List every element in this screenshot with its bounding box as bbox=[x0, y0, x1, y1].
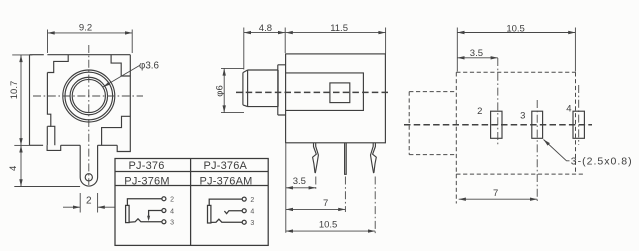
svg-text:3: 3 bbox=[250, 220, 254, 227]
bottom view body hidden outline bbox=[456, 72, 583, 174]
svg-text:10.5: 10.5 bbox=[319, 220, 338, 231]
svg-text:PJ-376M: PJ-376M bbox=[124, 175, 169, 187]
side view pin right (bent) bbox=[371, 143, 377, 173]
dimension 9.2 bbox=[48, 22, 133, 53]
side view pin centerlines bbox=[316, 177, 375, 234]
bottom view horizontal centerline bbox=[404, 124, 592, 126]
dimension 10.5 (bottom view) bbox=[457, 23, 575, 71]
dimension 11.5 bbox=[286, 23, 386, 54]
svg-text:3.5: 3.5 bbox=[470, 48, 483, 59]
bottom view pin 3 pad bbox=[532, 111, 543, 138]
side view centerline bbox=[236, 91, 390, 93]
svg-text:7: 7 bbox=[493, 188, 498, 199]
front view corner step bottom-left bbox=[47, 125, 50, 127]
terminal 2 (right cell) bbox=[242, 197, 254, 204]
side view pin left (bent) bbox=[313, 143, 319, 173]
label phi3.6 with leader bbox=[103, 61, 160, 88]
table model names bbox=[124, 160, 252, 188]
front view horizontal centerline bbox=[33, 95, 143, 97]
svg-text:φ6: φ6 bbox=[215, 85, 226, 96]
switch wire terminal 4 (right cell) bbox=[224, 211, 242, 214]
svg-text:φ3.6: φ3.6 bbox=[139, 61, 160, 72]
svg-text:PJ-376: PJ-376 bbox=[128, 160, 164, 172]
dimension 7 (side) bbox=[286, 198, 346, 211]
dimension 10.7 bbox=[9, 55, 32, 145]
terminal 3 (right cell) bbox=[242, 220, 254, 227]
terminal 2 (left cell) bbox=[162, 197, 174, 204]
dimension 4.8 bbox=[244, 23, 285, 70]
svg-text:2: 2 bbox=[170, 197, 174, 204]
svg-text:PJ-376A: PJ-376A bbox=[204, 160, 248, 172]
front view corner step top-left bbox=[47, 55, 68, 73]
label 3-(2.5x0.8) with leader bbox=[544, 140, 633, 168]
front view vertical centerline bbox=[88, 45, 90, 185]
wire to terminal 2 (left cell) bbox=[127, 199, 161, 206]
front view barrel circles bbox=[63, 70, 115, 122]
tip contact wire terminal 3 (left cell) bbox=[129, 219, 162, 222]
svg-text:4.8: 4.8 bbox=[259, 23, 272, 34]
svg-text:3: 3 bbox=[170, 220, 174, 227]
front view corner step top-right bbox=[111, 55, 130, 76]
terminal 4 (right cell) bbox=[242, 209, 254, 216]
switch wire terminal 4 (left cell) bbox=[147, 211, 162, 222]
wire to terminal 2 (right cell) bbox=[209, 199, 242, 205]
bottom view pin 2 pad bbox=[491, 111, 502, 138]
front view body outline bbox=[30, 55, 131, 186]
svg-text:3: 3 bbox=[520, 110, 525, 121]
svg-text:2: 2 bbox=[250, 197, 254, 204]
dimension 10.5 (side) bbox=[286, 220, 375, 233]
bottom view barrel hidden outline bbox=[409, 92, 456, 155]
dimension 2 (tab width) bbox=[63, 193, 115, 213]
svg-text:3.5: 3.5 bbox=[293, 176, 306, 187]
dimension 3.5 (side) bbox=[286, 176, 316, 189]
terminal 3 (left cell) bbox=[162, 220, 174, 227]
schematic PJ-376 sleeve contact bbox=[126, 205, 130, 222]
dimension 4 (tab) bbox=[8, 145, 80, 186]
schematic PJ-376A sleeve contact bbox=[208, 205, 211, 223]
svg-text:10.5: 10.5 bbox=[506, 23, 525, 34]
svg-text:2: 2 bbox=[86, 195, 92, 206]
dimension 3.5 (bottom view) bbox=[457, 48, 498, 59]
bottom view pin centerlines bbox=[498, 58, 579, 201]
front view inner left edge bbox=[47, 73, 55, 146]
svg-text:4: 4 bbox=[170, 208, 174, 215]
bottom view pin 4 pad bbox=[573, 111, 584, 138]
terminal 4 (left cell) bbox=[162, 208, 174, 215]
dimension phi6 bbox=[215, 68, 244, 112]
svg-text:2: 2 bbox=[477, 106, 482, 117]
svg-text:7: 7 bbox=[323, 198, 328, 209]
svg-text:PJ-376AM: PJ-376AM bbox=[200, 175, 253, 187]
svg-text:9.2: 9.2 bbox=[79, 22, 92, 33]
svg-text:10.7: 10.7 bbox=[9, 81, 20, 100]
tip contact wire terminal 3 (right cell) bbox=[211, 219, 242, 222]
svg-text:4: 4 bbox=[566, 103, 571, 114]
dimension 7 (bottom view) bbox=[456, 174, 537, 203]
svg-text:4: 4 bbox=[8, 166, 19, 171]
side view pin middle (straight) bbox=[345, 143, 347, 174]
svg-text:4: 4 bbox=[250, 209, 254, 216]
bottom view pin labels bbox=[477, 103, 571, 121]
side view ring bbox=[278, 65, 286, 115]
side view barrel bbox=[243, 70, 278, 107]
side view window square bbox=[330, 83, 350, 103]
variants table frame bbox=[115, 159, 268, 246]
side view inner band bbox=[286, 73, 364, 111]
front view tab hole bbox=[85, 174, 92, 181]
svg-text:3-(2.5x0.8): 3-(2.5x0.8) bbox=[571, 155, 633, 167]
svg-text:11.5: 11.5 bbox=[330, 23, 348, 34]
side view body bbox=[286, 54, 386, 143]
side view left extension line bbox=[285, 144, 287, 233]
front view inner right edge bbox=[102, 116, 131, 145]
